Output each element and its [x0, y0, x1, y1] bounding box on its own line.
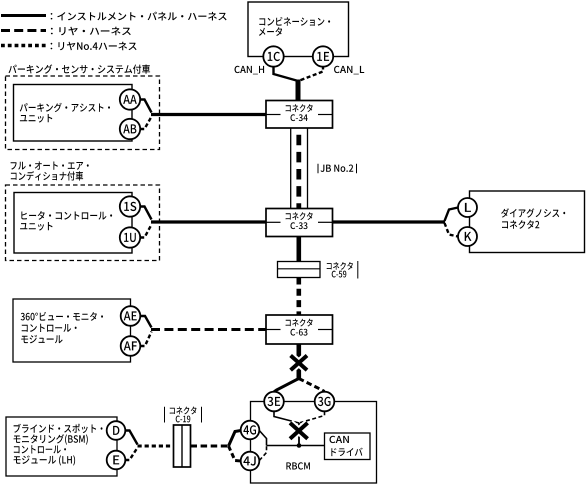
label full auto air conditioner — [11, 161, 89, 169]
connector C-33 pins — [266, 221, 281, 223]
box heater control unit — [14, 193, 132, 254]
label connector G-63 — [286, 319, 313, 327]
box 360 view monitor control module — [13, 299, 131, 362]
dashed option box: parking sensor system — [6, 76, 160, 150]
wire AA to fork — [140, 100, 151, 113]
wire parking fork to C-34 — [151, 113, 266, 116]
wire rbcm fork to 4G — [229, 431, 241, 447]
box RBCM — [251, 402, 377, 484]
box combination meter — [248, 2, 349, 57]
terminal 1E — [313, 46, 333, 66]
wire 3E to X2 merge — [274, 411, 299, 423]
wire AB to fork dashed — [140, 117, 151, 130]
label connector C-33 — [286, 212, 313, 220]
wire E to fork dashed — [125, 448, 137, 461]
wire inside JB No.2 (dashed trunk) — [296, 128, 301, 209]
wire fork to 3G dashed — [299, 379, 325, 392]
wire C-59 to G-63 dashed — [296, 278, 301, 316]
wire AF to fork dashed — [141, 332, 152, 347]
wire 1S to fork — [140, 207, 151, 220]
terminal E — [107, 451, 126, 470]
terminal 4G — [241, 421, 260, 440]
label RBCM — [286, 462, 310, 469]
wire fork to K dashed — [445, 223, 459, 237]
terminal D — [107, 421, 126, 440]
terminal 1S — [120, 196, 140, 216]
JB No.2 label ticks — [317, 164, 319, 174]
terminal AA — [120, 89, 140, 109]
dashed option box: full auto air conditioner — [6, 185, 160, 261]
label ticks C-19 — [164, 407, 166, 423]
connector C-19 box — [174, 425, 191, 467]
terminal 1U — [120, 227, 140, 247]
box parking assist unit — [14, 85, 133, 142]
wire fork to L — [445, 208, 459, 222]
legend label: rear No.4 harness — [51, 42, 137, 51]
connector C-59 box — [278, 262, 321, 278]
wire X2 merge to junction — [298, 423, 300, 446]
label 360 view monitor control module — [21, 312, 103, 321]
terminal K — [458, 227, 477, 246]
wire 360 fork to G-63 dashed — [151, 328, 266, 331]
label diagnosis connector 2 — [501, 208, 565, 217]
label connector C-59 — [327, 262, 353, 270]
wire heater fork to C-33 — [151, 220, 266, 223]
label BSM control module — [14, 424, 103, 433]
wire 3G to X2 merge dashed — [299, 411, 325, 423]
box BSM control module — [6, 417, 117, 476]
label CAN driver — [330, 436, 349, 443]
legend label: instrument panel harness — [51, 12, 227, 21]
connector C-34 pins — [266, 114, 281, 116]
twisted pair cross X1 — [291, 356, 307, 371]
legend label: rear harness — [51, 27, 131, 36]
legend dashed line (rear harness) — [1, 29, 46, 32]
label ticks C-59 — [357, 261, 359, 279]
label CAN_H — [235, 66, 265, 75]
wire 4J to bus dashed — [259, 446, 266, 461]
wire G-63 to fork — [296, 344, 301, 379]
wire 1U to fork dashed — [140, 225, 151, 238]
connector C-33 box — [266, 209, 333, 237]
wire 1C to merge (CAN_H) — [274, 66, 297, 81]
label parking sensor system — [9, 64, 151, 73]
JB No.2 left rail — [290, 128, 292, 209]
wire 1E to merge dashed (CAN_L) — [300, 66, 324, 81]
wire C-33 to C-59 — [296, 237, 301, 262]
wire rbcm fork to 4J dashed — [229, 446, 241, 461]
box CAN driver — [325, 433, 371, 460]
wire BSM fork to C-19 dotted — [138, 445, 174, 448]
twisted pair cross X2 — [290, 423, 308, 439]
terminal 3G — [315, 392, 335, 412]
JB No.2 right rail — [307, 128, 309, 209]
terminal L — [458, 198, 477, 217]
wire internal bus horizontal — [267, 445, 325, 447]
box diagnosis connector 2 — [470, 191, 585, 253]
terminal 4J — [241, 452, 260, 471]
terminal AF — [121, 336, 141, 356]
wire C-19 to rbcm fork dotted — [191, 445, 229, 448]
terminal AB — [120, 119, 140, 139]
wire trunk merge to C-34 — [296, 80, 301, 102]
legend dotted line (rear No.4 harness) — [1, 44, 46, 47]
wire C-33 to diagnosis fork — [333, 220, 446, 223]
terminal 3E — [264, 392, 284, 412]
connector C-34 box — [266, 101, 333, 129]
label connector C-34 — [286, 104, 313, 112]
terminal AE — [121, 306, 141, 326]
wire AE to fork — [141, 316, 152, 328]
wire 4G to bus — [259, 431, 266, 446]
legend solid line (instrument panel harness) — [1, 14, 46, 17]
wire D to fork — [125, 431, 137, 445]
connector G-63 box — [266, 315, 333, 344]
label parking assist unit — [20, 103, 110, 112]
connector G-63 pins — [266, 329, 281, 331]
junction dot — [297, 443, 302, 448]
terminal 1C — [263, 46, 283, 66]
wire fork to 3E — [274, 379, 299, 392]
label JB No.2 — [321, 165, 354, 172]
label connector C-19 — [170, 407, 197, 415]
label CAN_L — [334, 66, 364, 75]
label combination meter — [259, 17, 330, 26]
label heater control unit — [21, 211, 112, 220]
